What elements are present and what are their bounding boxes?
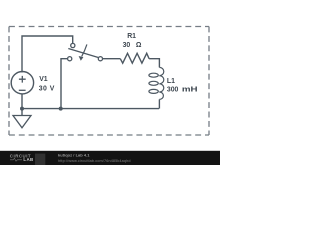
svg-text:LAB: LAB bbox=[23, 157, 33, 162]
switch SW1 terminal circles bbox=[68, 43, 103, 60]
wire: V1 bottom to ground node bbox=[21, 94, 23, 115]
R1 value labels bbox=[123, 33, 142, 49]
svg-text:http://www.circuitlab.com/76n4: http://www.circuitlab.com/76n485k4aqhd bbox=[58, 159, 131, 163]
switch SW1 actuation arrow bbox=[79, 44, 87, 60]
inductor L1 bbox=[149, 67, 164, 99]
voltage source V1 bbox=[11, 72, 33, 94]
svg-text:V1: V1 bbox=[39, 76, 48, 83]
V1 value labels bbox=[39, 76, 55, 92]
svg-text:30 V: 30 V bbox=[39, 85, 55, 92]
wire: resistor to inductor top bbox=[149, 59, 159, 68]
wire: bottom rail bbox=[22, 108, 159, 110]
resistor R1 bbox=[120, 53, 149, 63]
wire: V1 top to switch bbox=[22, 36, 73, 73]
svg-text:mH: mH bbox=[182, 86, 198, 93]
node: junction dot switch throw/bottom rail bbox=[59, 107, 63, 111]
svg-text:kutiqoz / Lab 4.1: kutiqoz / Lab 4.1 bbox=[58, 153, 90, 158]
svg-text:300: 300 bbox=[167, 86, 179, 93]
svg-text:L1: L1 bbox=[167, 78, 175, 85]
L1 value labels bbox=[167, 78, 198, 94]
wire: inductor bottom to rail bbox=[158, 99, 160, 108]
ground bbox=[13, 116, 31, 128]
wire: switch pole to resistor bbox=[103, 58, 121, 60]
svg-text:Ω: Ω bbox=[136, 42, 142, 49]
wire: switch lower throw down to bottom rail bbox=[61, 59, 68, 109]
footer logo CIRCUIT LAB bbox=[10, 153, 46, 165]
footer bar bbox=[0, 151, 220, 165]
svg-text:30: 30 bbox=[123, 42, 131, 49]
svg-text:R1: R1 bbox=[127, 33, 136, 40]
node: junction dot at V1/ground bbox=[20, 107, 24, 111]
switch SW1 blade bbox=[68, 49, 98, 58]
